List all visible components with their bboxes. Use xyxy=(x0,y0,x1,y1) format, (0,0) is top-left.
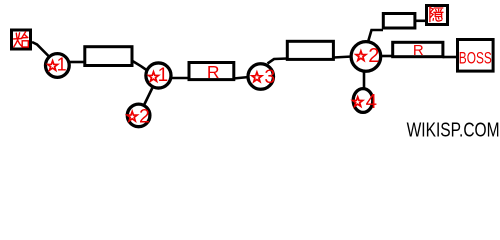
svg-text:R: R xyxy=(413,42,424,59)
svg-text:1: 1 xyxy=(57,55,67,75)
svg-text:2: 2 xyxy=(368,45,379,67)
svg-text:2: 2 xyxy=(139,106,150,128)
svg-text:1: 1 xyxy=(158,65,169,86)
svg-text:3: 3 xyxy=(264,66,275,88)
svg-text:BOSS: BOSS xyxy=(459,49,492,67)
svg-text:4: 4 xyxy=(366,90,377,113)
svg-text:R: R xyxy=(207,62,220,82)
svg-text:WIKISP.COM: WIKISP.COM xyxy=(407,118,500,141)
